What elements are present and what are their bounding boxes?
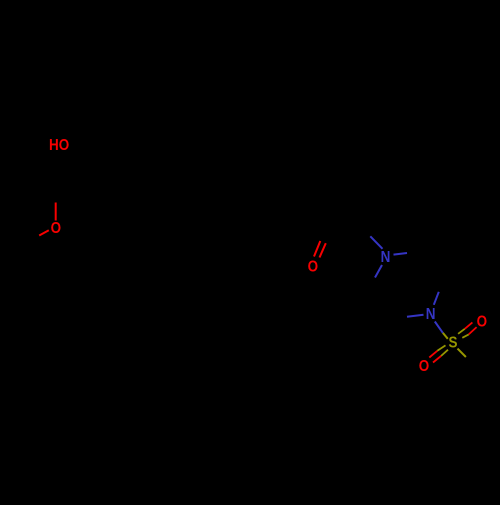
- svg-text:HO: HO: [49, 137, 69, 154]
- svg-text:O: O: [51, 220, 61, 237]
- svg-text:S: S: [449, 335, 458, 352]
- svg-text:O: O: [419, 358, 429, 375]
- svg-text:N: N: [426, 306, 436, 323]
- svg-text:O: O: [477, 314, 487, 331]
- svg-text:N: N: [381, 249, 391, 266]
- svg-text:O: O: [308, 259, 318, 276]
